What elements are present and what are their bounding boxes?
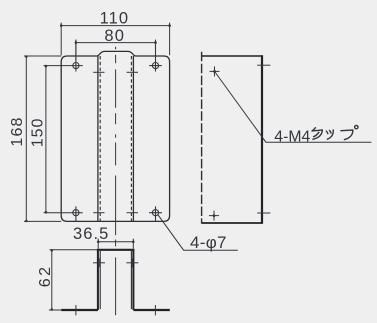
- svg-text:36.5: 36.5: [73, 225, 110, 243]
- hidden line left (dashed): [99, 56, 101, 221]
- bottom view: left wall inner: [99, 251, 101, 309]
- svg-text:62: 62: [37, 265, 54, 288]
- side view: bottom edge: [202, 222, 263, 224]
- fold line right (solid): [132, 56, 134, 221]
- leader line for 4-phi7: [158, 215, 238, 251]
- svg-text:168: 168: [9, 116, 26, 146]
- side view: hole tick bottom: [257, 212, 270, 214]
- bottom view: hole tick left: [75, 305, 77, 315]
- svg-text:4-M4: 4-M4: [274, 128, 310, 145]
- side view: tap cross top: [210, 66, 220, 76]
- side view: top edge: [202, 55, 263, 57]
- bottom view: right flange: [133, 309, 169, 311]
- side view: tap cross bottom: [209, 211, 219, 221]
- svg-text:110: 110: [100, 10, 130, 28]
- front view plate outline with top bump: [61, 51, 169, 221]
- dimension 36.5: [98, 239, 133, 249]
- svg-text:150: 150: [29, 118, 46, 148]
- bottom view: tap cross right: [126, 258, 138, 267]
- leader line for 4-M4 tap: [215, 72, 371, 142]
- bottom view: left flange: [61, 309, 98, 311]
- label katakana small-tsu: [326, 130, 333, 139]
- bottom view: right wall outer: [132, 250, 134, 310]
- center line segments (vertical, through both views): [115, 47, 117, 315]
- hidden line right (dashed): [130, 56, 132, 221]
- bottom view: channel web: [97, 249, 134, 251]
- dimension 150: [44, 66, 83, 213]
- dimension 62: [49, 250, 97, 310]
- dimension 168: [24, 56, 61, 221]
- svg-text:4-φ7: 4-φ7: [190, 233, 227, 252]
- svg-text:80: 80: [104, 27, 125, 45]
- bottom view: hole tick right: [154, 305, 156, 315]
- side view: left edge (hidden/dashed): [201, 52, 203, 224]
- hole bottom-left: [73, 206, 79, 221]
- bottom view: right wall inner: [130, 251, 132, 309]
- hole top-left: [73, 40, 79, 72]
- tap tick marks on fold lines (front view): [93, 72, 138, 212]
- dimension 80: [76, 40, 156, 60]
- side view: hole tick top: [257, 64, 270, 66]
- hole top-right: [149, 40, 162, 72]
- side view: right edge (plate, thick): [261, 55, 263, 224]
- hole bottom-right: [149, 206, 162, 221]
- bottom view: left wall outer: [97, 250, 99, 310]
- dimension 110: [61, 23, 169, 56]
- bottom view: tap cross left: [93, 258, 105, 267]
- fold line left (solid): [97, 56, 99, 221]
- label katakana ta: [312, 128, 322, 140]
- label katakana pu: [341, 125, 358, 139]
